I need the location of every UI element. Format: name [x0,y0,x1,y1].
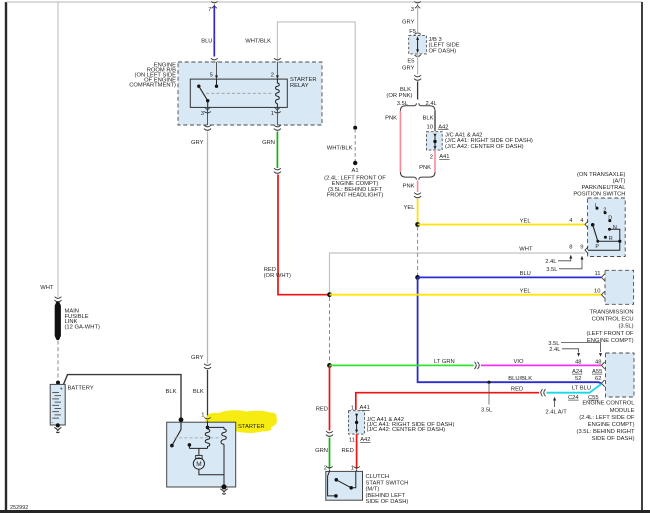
svg-text:RELAY: RELAY [290,83,309,89]
svg-text:52: 52 [575,376,581,382]
wire GRN to clutch start switch pin 2 [329,438,331,470]
svg-text:A55: A55 [592,369,602,375]
svg-text:YEL: YEL [404,205,416,211]
label BLK right branch [423,116,434,122]
svg-text:PARK/NEUTRAL: PARK/NEUTRAL [581,185,626,191]
svg-text:MODULE: MODULE [610,408,635,414]
J/C upper internal arrows and splice [433,134,436,150]
svg-text:D: D [608,215,612,221]
pin 3 label [201,111,204,117]
svg-text:BLK: BLK [193,389,204,395]
svg-text:WHT: WHT [40,285,54,291]
node battery negative terminal [56,423,60,427]
engine room R/B dashed box [178,62,322,125]
connector at top of GRY wire [414,1,421,8]
svg-text:COMPARTMENT): COMPARTMENT) [129,83,176,89]
clutch start switch box [326,471,363,500]
label A41 lower [360,405,370,411]
leader line 3.5L tap [488,382,490,404]
svg-text:L: L [595,203,598,209]
J/B 3 internal arrow [416,36,419,53]
svg-text:BLU: BLU [201,39,212,45]
label RED above clutch [316,407,328,413]
svg-text:2.4L: 2.4L [549,347,561,353]
svg-text:PNK: PNK [385,116,397,122]
connector above fusible link [54,297,61,302]
label (ON TRANSAXLE) (A/T) PARK/NEUTRAL POSITION SWITCH [573,172,626,198]
svg-text:GRY: GRY [402,20,415,26]
starter box [167,422,236,487]
pin 2 wire into relay [276,62,279,79]
svg-text:A1: A1 [351,168,358,174]
wire GRY from top to J/B 3 [417,6,419,32]
label GRY [191,140,204,146]
fusible link MAIN FUSIBLE LINK [55,301,61,340]
junction connector J/C A41 & A42 lower [349,411,365,434]
svg-text:7: 7 [208,7,211,13]
pin 8 and 9 labels [569,245,583,251]
label BATTERY [68,386,94,392]
connector at ECM pin 48 [602,362,605,369]
starter solenoid pull-in coil [205,427,210,448]
svg-text:2: 2 [603,207,606,213]
transmission control ecu box [605,270,634,304]
starter motor M [193,455,204,469]
label BLU [201,39,212,45]
junction block J/B 3 [409,35,427,54]
wire LT GRN junction to connector [330,364,474,366]
starter motor return wire [199,469,224,475]
page frame right border [641,2,643,511]
svg-text:CONTROL ECU: CONTROL ECU [592,317,634,323]
label J/B 3 (LEFT SIDE OF DASH) [429,37,460,54]
node junction BLU [415,275,420,280]
label WHT/BLK at relay [245,39,271,45]
svg-text:WHT/BLK: WHT/BLK [245,39,271,45]
svg-text:M: M [196,461,201,468]
wire WHT/BLK from relay pin 2 up and over to A1 [277,22,355,128]
node junction YEL [415,222,420,227]
battery [50,384,65,425]
connector arc below J/B 3 [415,55,421,57]
J/C lower internal arrows and splice [355,414,358,434]
ground below starter [220,489,227,494]
svg-text:ENGINE CONTROL: ENGINE CONTROL [582,401,635,407]
labels A24 A55 [572,369,602,375]
wire WHT/BLK dashed to ground A1 [354,129,356,162]
svg-text:11: 11 [594,271,600,277]
starter highlight marker [205,410,277,433]
svg-text:RED: RED [316,407,328,413]
svg-text:11: 11 [349,438,355,444]
label PNK merged [403,184,415,190]
label GRY below J/B 3 [402,66,415,72]
label BLK battery cable [166,389,177,395]
svg-text:A41: A41 [439,154,449,160]
label 3.5L tap [481,408,493,414]
page frame left border [5,2,7,511]
svg-text:LT GRN: LT GRN [434,359,455,365]
svg-text:(3.5L: BEHIND RIGHT: (3.5L: BEHIND RIGHT [577,429,635,435]
pin E5 label [407,59,414,65]
svg-text:WHT: WHT [519,247,533,253]
svg-text:48: 48 [595,359,601,365]
svg-text:A24: A24 [572,369,583,375]
svg-text:(ON TRANSAXLE): (ON TRANSAXLE) [577,172,626,178]
label WHT/BLK at A1 [327,146,353,152]
svg-text:WHT/BLK: WHT/BLK [327,146,353,152]
pin F5 label [409,29,416,35]
connector inline LT GRN to VIO [475,362,480,369]
svg-text:(12 GA-WHT): (12 GA-WHT) [65,325,100,331]
label A41 [439,154,449,160]
label GRN at clutch [315,448,328,454]
node junction battery cable at starter [179,417,184,422]
svg-text:P: P [595,244,599,250]
connector arc above J/B 3 [415,33,421,35]
pin 2 label below J/C [430,155,433,161]
svg-text:TRANSMISSION: TRANSMISSION [589,310,633,316]
label A42 lower [360,437,370,443]
wire YEL down to junction [417,199,419,225]
label RED to ECM [511,387,523,393]
svg-text:+: + [60,387,63,393]
svg-text:(OR WHT): (OR WHT) [264,273,291,279]
label CLUTCH START SWITCH (M/T) (BEHIND LEFT SIDE OF DASH) [366,474,409,505]
svg-text:1: 1 [271,111,274,117]
label J/C A41 & A42 (J/C A41: RIGHT SIDE OF DASH) (J/C A42: CENTER OF DASH) [367,417,455,433]
svg-text:GRY: GRY [191,140,204,146]
ground point A1 [353,161,357,165]
svg-text:BLU: BLU [520,271,531,277]
pin 1 wire out of relay [274,107,281,125]
pin 10 label [427,125,433,131]
label BLK (OR PNK) [386,87,412,99]
labels C24 C55 [568,395,599,401]
engine control module box [606,353,635,397]
switch internal wiring N and P to output [588,229,621,250]
svg-text:YEL: YEL [520,218,532,224]
pin 11 label below J/C lower [349,438,355,444]
contact L [595,203,599,210]
wire YEL junction to park/neutral switch pin 4 [418,224,586,226]
svg-text:GRN: GRN [262,140,275,146]
pin 48 labels [575,359,601,365]
clutch switch right path [351,471,356,487]
wire GRY below J/B 3 [417,54,419,75]
pin 1 label [271,111,274,117]
label YEL vertical [404,205,416,211]
wire BLK from connector to starter pin 1 [207,370,209,417]
pin 2 label clutch [324,465,327,471]
contact P [595,240,599,251]
wire RED horizontal to connector [356,393,539,410]
wire BLK (OR PNK) to split [417,82,419,100]
svg-text:N: N [613,225,617,231]
wire dashed YEL junction down to BLU junction [417,227,419,277]
connector below relay box pin 3 [204,125,211,130]
connector at clutch pin 2 [326,466,333,473]
contact N [608,225,617,231]
label ENGINE CONTROL MODULE (2.4L: LEFT SIDE OF ENGINE COMPT) (3.5L: BEHIND RIGHT SIDE OF DASH) [577,401,636,443]
svg-text:2: 2 [430,155,433,161]
svg-text:2.4L: 2.4L [545,259,557,265]
svg-text:GRY: GRY [402,66,415,72]
wire RED (OR WHT) down and right to junction [278,175,330,295]
svg-text:(J/C A42: CENTER OF DASH): (J/C A42: CENTER OF DASH) [445,144,524,150]
svg-text:PNK: PNK [403,184,415,190]
svg-text:(LEFT FRONT OF: (LEFT FRONT OF [586,331,634,337]
wire PNK merged [417,181,419,193]
svg-text:GRY: GRY [191,355,204,361]
svg-text:A41: A41 [360,405,370,411]
relay coil [276,79,280,107]
svg-text:(3.5L): (3.5L) [618,324,633,330]
pin 52 62 labels [575,376,601,382]
label GRN [262,140,275,146]
label STARTER [238,424,265,430]
connector at TCM pin 10 [602,291,605,298]
svg-text:C24: C24 [568,395,579,401]
label 2.4L branch [426,101,438,107]
svg-text:E5: E5 [407,59,414,65]
pin 10 label [594,288,600,294]
wire BLU to starter relay pin 5 [213,6,215,57]
label RED at clutch pin 1 [342,448,354,454]
wire BLU junction to transmission control ecu pin 11 [418,276,602,278]
node splice on WHT/BLK wire [353,126,357,130]
svg-text:BLK: BLK [423,116,434,122]
wire GRN relay pin 1 down [276,132,278,169]
starter ground wire [223,444,225,486]
leader 3.5L to pin 9 [546,256,583,273]
svg-text:POSITION SWITCH: POSITION SWITCH [573,192,625,198]
connector at switch pin 9 [585,247,588,254]
starter contact switch [170,422,181,447]
svg-text:8: 8 [569,245,572,251]
wire WHT from top to fusible link [57,2,59,297]
pin 1 label above J/C lower [351,406,354,412]
svg-text:5: 5 [210,73,213,79]
label PNK right branch [419,165,431,171]
svg-text:(M/T): (M/T) [366,487,380,493]
connector inline on GRY wire [204,364,211,369]
svg-text:48: 48 [575,359,581,365]
label WHT on horizontal [519,247,533,253]
contact D [608,215,612,222]
starter contact stub to motor node [188,443,192,448]
label GRY lower [191,355,204,361]
svg-text:CLUTCH: CLUTCH [366,474,390,480]
svg-text:(A/T): (A/T) [613,179,626,185]
pin 7 label top [208,7,211,13]
wire YEL junction to transmission control ecu pin 10 [330,294,602,296]
pin 5 wire into relay [215,62,218,79]
clutch switch contact arm [335,478,354,490]
svg-text:(OR PNK): (OR PNK) [386,93,412,99]
wire BLU/BLK junction down and right to engine control module [418,277,602,383]
connector at switch pin 4 [585,221,588,228]
svg-text:10: 10 [594,288,600,294]
starter motor node wiring [189,448,207,455]
svg-text:RED: RED [511,387,523,393]
contact R [604,236,613,242]
svg-text:OF DASH): OF DASH) [429,48,457,54]
leader 2.4L to ECM pin 48 A24 [549,347,580,357]
pin 2 label [271,73,274,79]
svg-text:2.4L A/T: 2.4L A/T [545,410,567,416]
switch wiper arm to P [593,225,598,241]
starter pin 1 label [201,413,204,419]
svg-text:3.5L: 3.5L [548,341,560,347]
connector at clutch pin 1 [353,466,360,473]
svg-text:BATTERY: BATTERY [68,386,94,392]
node battery positive terminal [56,381,60,385]
svg-text:SIDE OF DASH): SIDE OF DASH) [592,436,635,442]
contact 2 [603,207,606,214]
leader 2.4L A/T to LT BLU wire [545,397,567,416]
label TRANSMISSION CONTROL ECU (3.5L) (LEFT FRONT OF ENGINE COMPT) [586,310,634,344]
connector inline GRN to RED [274,168,281,173]
svg-text:BLK: BLK [166,389,177,395]
label MAIN FUSIBLE LINK (12 GA-WHT) [65,309,100,331]
label LT BLU [572,386,591,392]
connector inline GRY to BLK [414,75,421,80]
wire merge braces [400,172,435,180]
wire split braces [400,103,435,111]
pin 3 wire out of relay [204,107,211,125]
park/neutral position switch box [588,198,626,257]
label WHT [40,285,54,291]
label GRY top [402,20,415,26]
label 3.5L branch [397,101,409,107]
svg-text:(J/C A42: CENTER OF DASH): (J/C A42: CENTER OF DASH) [367,427,446,433]
svg-text:(2.4L: LEFT SIDE OF: (2.4L: LEFT SIDE OF [579,415,635,421]
wire LT BLU to ECM [547,384,602,393]
clutch switch left path [328,471,338,497]
wire GRY relay pin 3 down to starter [207,132,209,364]
node junction LT GRN/RED [327,363,332,368]
svg-text:YEL: YEL [520,288,532,294]
label A1 (2.4L: LEFT FRONT OF ENGINE COMPT) (3.5L: BEHIND LEFT FRONT HEADLIGHT) [324,168,386,199]
ground below battery [54,428,61,433]
svg-text:2: 2 [271,73,274,79]
svg-text:A42: A42 [360,437,370,443]
connector at TCM pin 11 [602,274,605,281]
connector below relay box pin 1 [274,125,281,130]
node starter ground [221,484,226,489]
label VIO [514,359,524,365]
pin 11 label [594,271,600,277]
svg-text:ENGINE COMPT): ENGINE COMPT) [588,422,635,428]
wire PNK 3.5L branch [399,111,401,172]
wire BLK battery positive cable to starter [64,375,182,422]
pin 1 label clutch [351,465,354,471]
label LT GRN [434,359,455,365]
svg-text:VIO: VIO [514,359,524,365]
svg-text:1: 1 [201,413,204,419]
svg-text:3.5L: 3.5L [546,267,558,273]
svg-text:(BEHIND LEFT: (BEHIND LEFT [366,493,406,499]
label BLU/BLK [508,376,532,382]
svg-text:3: 3 [201,111,204,117]
leader 3.5L to ECM pin 48 A55 [548,341,602,357]
connector at starter pin 1 [204,417,211,424]
node 3.5L tap on BLU/BLK [487,381,490,384]
label YEL on horizontal [520,288,532,294]
pin 4 labels [569,218,584,224]
svg-text:FRONT HEADLIGHT): FRONT HEADLIGHT) [327,193,384,199]
connector at relay box top pin 5 [211,58,218,63]
label STARTER RELAY [290,77,317,89]
pin 5 label [210,73,213,79]
switch wiper pivot [591,223,595,227]
label ENGINE ROOM R/B (ON LEFT SIDE OF ENGINE COMPARTMENT) [129,63,176,89]
node junction RED/YEL/WHT [327,292,332,297]
svg-text:START SWITCH: START SWITCH [366,480,409,486]
svg-text:9: 9 [580,245,583,251]
leader 2.4L to pin 8 [545,255,572,265]
connector at top of BLU wire [211,1,218,8]
wire RED J/C to clutch pin 1 [356,434,358,469]
relay mechanical dashed link [206,92,273,94]
connector at relay box top pin 2 [274,58,281,63]
wire VIO to engine control module pin 48 [481,364,601,366]
svg-text:3.5L: 3.5L [481,408,493,414]
starter solenoid hold-in coil [221,427,226,444]
page frame top border [6,1,642,3]
label BLK at starter [193,389,204,395]
relay contact switch [197,79,218,107]
svg-text:3: 3 [411,7,414,13]
label RED (OR WHT) [264,267,291,279]
connector inline PNK to YEL [414,193,421,198]
label J/C A41 & A42 (J/C A41: RIGHT SIDE OF DASH) (J/C A42: CENTER OF DASH) [445,133,533,150]
connector at ECM pin 52/62 [602,380,605,387]
pin 3 label top [411,7,414,13]
connector inline RED to GRN [326,431,333,436]
svg-text:GRN: GRN [315,448,328,454]
svg-text:LT BLU: LT BLU [572,386,591,392]
starter mechanical dashed link [174,437,222,439]
svg-text:SIDE OF DASH): SIDE OF DASH) [366,499,409,505]
starter relay inner box [190,79,287,107]
svg-text:PNK: PNK [419,165,431,171]
svg-text:252992: 252992 [10,505,28,511]
svg-text:10: 10 [427,125,433,131]
label PNK left branch [385,116,397,122]
svg-text:BLU/BLK: BLU/BLK [508,376,532,382]
page frame bottom border [0,510,650,513]
label BLU horizontal [520,271,531,277]
svg-text:STARTER: STARTER [238,424,265,430]
wire PNK 2.4L branch below J/C [434,150,436,172]
wire RED junction down to clutch connector [329,365,331,430]
svg-text:62: 62 [595,376,601,382]
junction connector J/C A41 & A42 upper [427,132,443,150]
svg-text:A42: A42 [438,124,448,130]
starter solenoid feed from pin 1 [206,422,224,429]
wire WHT from junction up and right to park/neutral switch [330,253,586,295]
label A42 [438,124,448,130]
wire dashed link to battery [57,341,59,382]
label YEL horizontal [520,218,532,224]
wire dashed junction down to LT GRN junction [329,297,331,364]
wire BLK 2.4L branch to J/C [434,111,436,131]
svg-text:RED: RED [342,448,354,454]
connector inline RED to LT BLU [541,389,546,396]
